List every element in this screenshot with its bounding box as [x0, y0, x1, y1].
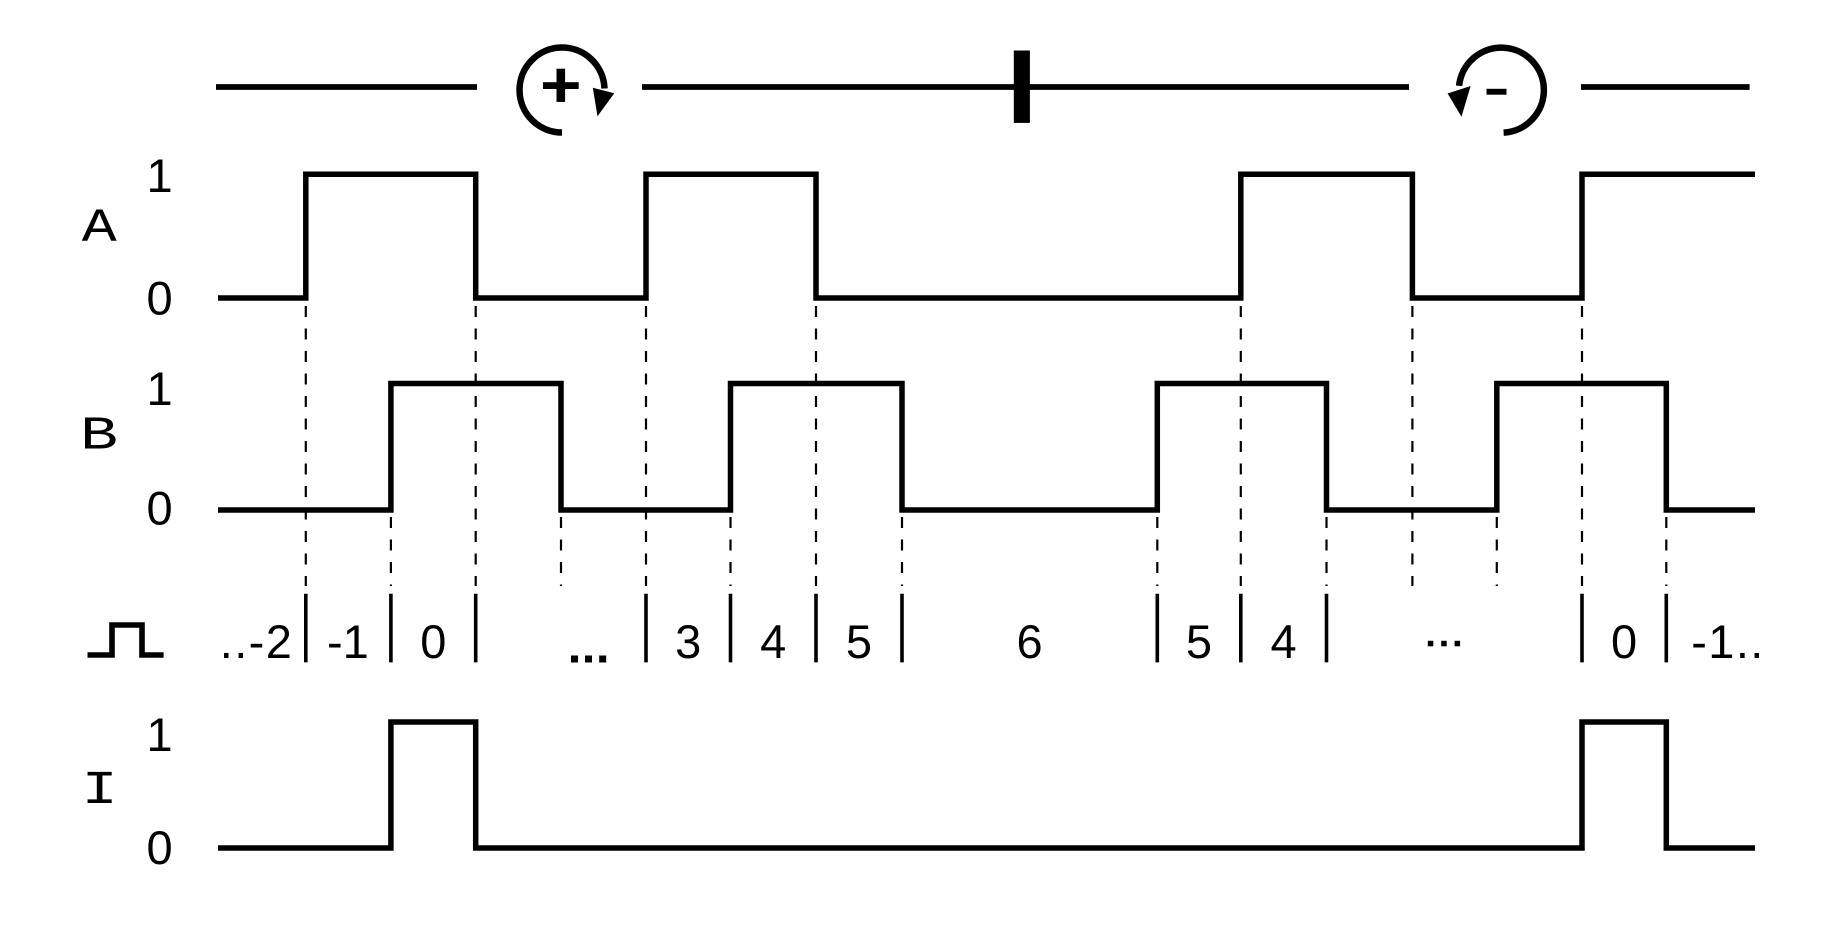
- svg-text:I: I: [82, 765, 118, 818]
- rotation icon plus: arrowhead: [593, 88, 615, 116]
- svg-text:6: 6: [1017, 615, 1043, 668]
- dashed edge lines from signal A: [306, 306, 1582, 586]
- count ellipsis low: [571, 656, 606, 663]
- svg-text:0: 0: [147, 821, 173, 874]
- svg-text:-1: -1: [327, 615, 369, 668]
- svg-text:1: 1: [147, 708, 173, 761]
- svg-text:A: A: [82, 202, 117, 255]
- rotation icon plus: plus sign: [543, 82, 579, 89]
- svg-text:4: 4: [760, 615, 786, 668]
- dashed edge lines from signal B: [391, 517, 1666, 586]
- svg-text:0: 0: [420, 615, 446, 668]
- timeline segment left: [216, 84, 477, 90]
- svg-text:0: 0: [1611, 615, 1637, 668]
- rotation icon minus: arc: [1459, 48, 1544, 133]
- svg-text:1: 1: [147, 149, 173, 202]
- direction change bar: [1014, 51, 1030, 123]
- signal A waveform: [218, 174, 1755, 298]
- count separator ticks: [306, 594, 1667, 663]
- svg-text:B: B: [80, 409, 118, 463]
- timeline segment middle: [642, 84, 1409, 90]
- svg-text:-1..: -1..: [1691, 615, 1765, 668]
- svg-text:5: 5: [1186, 615, 1212, 668]
- count pulse icon: [88, 625, 164, 655]
- signal I waveform: [218, 722, 1755, 848]
- svg-text:1: 1: [147, 362, 173, 415]
- svg-text:0: 0: [147, 482, 173, 535]
- signal B waveform: [218, 384, 1755, 511]
- svg-text:3: 3: [675, 615, 701, 668]
- count ellipsis mid: [1428, 641, 1460, 647]
- rotation icon plus: arc: [520, 48, 605, 133]
- rotation icon minus: arrowhead: [1448, 86, 1471, 117]
- timeline segment right: [1581, 84, 1750, 90]
- svg-text:0: 0: [147, 271, 173, 324]
- svg-text:5: 5: [846, 615, 872, 668]
- rotation icon minus: minus sign: [1487, 89, 1507, 95]
- svg-text:..-2: ..-2: [220, 615, 294, 668]
- svg-text:4: 4: [1271, 615, 1297, 668]
